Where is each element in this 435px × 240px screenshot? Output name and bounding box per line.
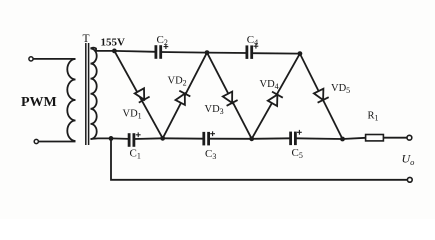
svg-text:R1: R1: [368, 111, 379, 123]
capacitor C4: [247, 45, 252, 59]
wire bottom rail: C3 to node B: [209, 138, 252, 140]
svg-text:C3: C3: [205, 148, 216, 161]
capacitor C2: [156, 45, 161, 59]
svg-text:VD2: VD2: [168, 76, 187, 88]
C3 polarity plus sign: [210, 131, 215, 136]
node C bottom: [340, 137, 345, 142]
diode VD5: [300, 54, 343, 139]
wire bottom rail: node B to C5: [252, 137, 291, 140]
diode VD4: [252, 54, 300, 139]
capacitor C3: [204, 132, 209, 146]
svg-text:VD1: VD1: [123, 109, 142, 121]
wire bottom rail: node C to R1: [343, 138, 366, 139]
C2 polarity plus sign: [164, 44, 169, 49]
wire bottom rail: secondary junction to C1: [111, 137, 129, 140]
wire secondary top lead to 155V node: [91, 48, 115, 51]
wire top rail: C4 to top-right node: [252, 52, 300, 54]
wire secondary bottom lead to bottom rail junction: [91, 137, 112, 140]
junction secondary-bottom: [109, 136, 114, 141]
node top-middle: [205, 50, 210, 55]
svg-text:C1: C1: [130, 148, 141, 161]
C4 polarity plus sign: [254, 44, 259, 49]
svg-text:PWM: PWM: [21, 95, 57, 110]
node B bottom: [249, 136, 254, 141]
wire return rail: junction down and right to output terminal: [111, 138, 407, 179]
wire bottom rail: C1 to node A: [134, 137, 163, 140]
svg-text:VD3: VD3: [205, 104, 224, 116]
diode VD2: [163, 53, 207, 139]
svg-text:T: T: [83, 33, 90, 45]
resistor R1: [366, 135, 384, 141]
wire bottom rail: C5 to node C: [295, 137, 342, 140]
PWM output terminal top: [29, 57, 33, 61]
diode VD1: [114, 51, 162, 138]
output terminal positive: [407, 135, 412, 140]
wire PWM top to transformer primary: [33, 58, 75, 60]
wire top rail: C2 to top-middle node: [161, 51, 207, 54]
wire bottom rail: node A to C3: [163, 137, 204, 139]
wire top rail: 155V node to C2: [114, 50, 155, 53]
svg-text:VD4: VD4: [260, 79, 279, 91]
C1 polarity plus sign: [136, 132, 141, 137]
transformer T primary winding: [67, 59, 75, 141]
C5 polarity plus sign: [297, 130, 302, 135]
output terminal negative: [407, 177, 412, 182]
node A bottom: [160, 136, 165, 141]
diode VD3: [207, 53, 252, 139]
svg-text:C4: C4: [247, 34, 258, 47]
PWM output terminal bottom: [34, 139, 38, 143]
svg-text:C2: C2: [157, 34, 168, 47]
svg-text:C5: C5: [292, 147, 303, 160]
wire top rail: top-middle node to C4: [207, 52, 247, 54]
svg-text:VD5: VD5: [331, 83, 350, 95]
node 155V top: [112, 49, 117, 54]
transformer T secondary winding: [91, 49, 97, 139]
node top-right: [298, 51, 303, 56]
wire R1 to output terminal: [383, 137, 407, 139]
transformer T core: [86, 43, 89, 145]
capacitor C1: [129, 133, 134, 147]
capacitor C5: [291, 132, 296, 146]
wire PWM bottom to transformer primary: [39, 141, 76, 143]
svg-text:155V: 155V: [101, 37, 126, 49]
svg-text:Uo: Uo: [402, 152, 415, 168]
